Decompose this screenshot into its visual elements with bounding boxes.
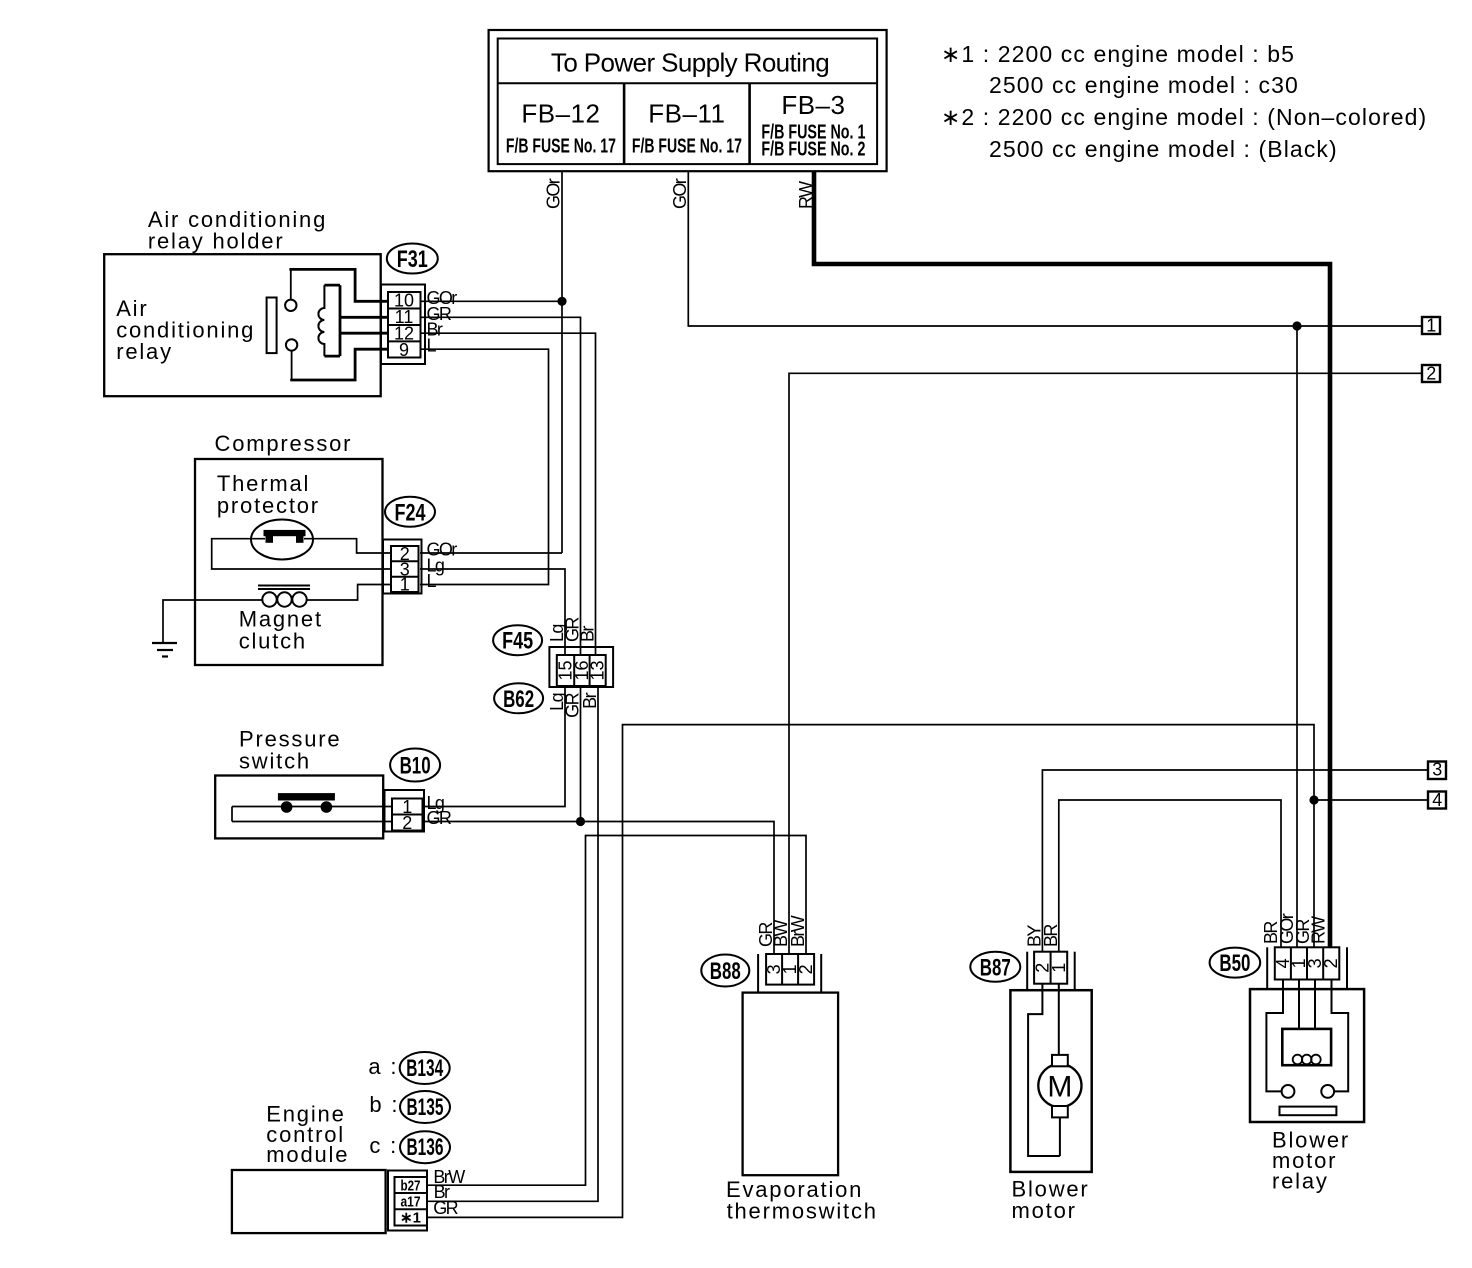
svg-text:2: 2 [402, 813, 412, 833]
power supply routing box [489, 30, 887, 171]
svg-text:b :: b : [369, 1092, 399, 1117]
svg-text:F/B FUSE No. 17: F/B FUSE No. 17 [506, 136, 616, 158]
wire B87 pin 2 to motor bottom terminal [1028, 984, 1060, 1156]
svg-text:3: 3 [1432, 760, 1442, 780]
thermal protector [251, 520, 313, 560]
magnet clutch coil [258, 586, 310, 607]
connector B88 [701, 954, 821, 993]
wire B87 pin 1 to motor top terminal [1058, 984, 1060, 1055]
wire GR: B10 pin 2 to B88 pin 3 [423, 822, 774, 955]
wire magnet clutch to pin 1 [307, 585, 392, 601]
connector row a: B134 [368, 1052, 449, 1084]
svg-text:B62: B62 [503, 686, 534, 713]
wire GR: ECM pin *1 up and right to B50 pin 3 [427, 725, 1314, 1218]
svg-text:F/B FUSE No. 17: F/B FUSE No. 17 [632, 136, 742, 158]
svg-text:F45: F45 [502, 628, 533, 655]
wire relay bottom contact to pin 9 [290, 349, 388, 380]
wire magnet clutch to ground [163, 600, 263, 642]
svg-text:F/B FUSE No. 2: F/B FUSE No. 2 [761, 139, 865, 161]
wire relay coil to pin 11 [340, 316, 388, 319]
svg-text:thermoswitch: thermoswitch [727, 1198, 878, 1223]
svg-text:Br: Br [580, 692, 600, 708]
motor M1 blower [1038, 1055, 1081, 1118]
svg-text:B136: B136 [407, 1134, 444, 1161]
svg-text:Compressor: Compressor [215, 431, 353, 456]
svg-text:switch: switch [239, 749, 311, 774]
svg-text:B87: B87 [980, 954, 1011, 981]
svg-text:GR: GR [427, 808, 452, 828]
svg-text:GOr: GOr [544, 178, 564, 209]
evaporation thermoswitch box [726, 993, 878, 1224]
svg-text:relay holder: relay holder [148, 229, 285, 254]
blower motor relay box [1250, 989, 1364, 1194]
relay contact points [1282, 1085, 1335, 1098]
svg-text:∗2 : 2200 cc engine model : (N: ∗2 : 2200 cc engine model : (Non–colored… [941, 104, 1427, 130]
svg-text:9: 9 [399, 340, 409, 360]
relay armature bar [1280, 1107, 1337, 1116]
svg-text:B135: B135 [407, 1094, 444, 1121]
wire thermal protector to pin 2 [304, 539, 391, 553]
node tag 3 [1428, 760, 1446, 780]
wire BrW: ECM pin b27 to B88 pin 2 [427, 836, 806, 1186]
wire pressure switch left link [231, 807, 233, 822]
ground [152, 643, 177, 657]
svg-text:a17: a17 [401, 1194, 421, 1211]
wire Br: ECM pin a17 to B62 pin 13 [427, 687, 598, 1201]
wire relay pin 3 to coil [1314, 980, 1316, 1029]
junction GR at pressure switch pin 2 wire [576, 817, 585, 826]
wire Lg: F24 pin 3 to F45 pin 15 [420, 569, 565, 655]
node tag 4 [1428, 790, 1446, 810]
svg-text:a :: a : [368, 1054, 398, 1079]
connector F31 [381, 244, 438, 365]
air conditioning relay holder box [104, 207, 381, 396]
svg-text:2: 2 [796, 964, 816, 974]
connector row b: B135 [369, 1091, 450, 1123]
wire GOr: branch down to B50 pin 1 [1296, 326, 1298, 947]
svg-text:c :: c : [369, 1133, 398, 1158]
connector F24 [383, 497, 435, 594]
node tag 1 [1422, 316, 1440, 336]
svg-text:FB–3: FB–3 [781, 90, 845, 120]
connector F45 [493, 625, 542, 655]
svg-text:GOr: GOr [670, 178, 690, 209]
svg-text:1: 1 [400, 575, 410, 595]
svg-text:To Power Supply Routing: To Power Supply Routing [551, 48, 829, 78]
wire GOr: FB-11 down and right to tag 1 [688, 171, 1422, 326]
junction GOr at F31 pin 10 wire [557, 297, 566, 306]
ECM connector body [388, 1171, 427, 1231]
svg-text:BrW: BrW [788, 915, 808, 947]
connector row c: B136 [369, 1131, 450, 1163]
relay coil K1 [1282, 1029, 1331, 1065]
svg-text:1: 1 [1049, 963, 1069, 973]
note *1 *2 engine models [941, 41, 1427, 162]
wire BR: B87 pin 1 to B50 pin 4 [1059, 800, 1281, 952]
svg-text:F31: F31 [397, 246, 428, 273]
svg-text:motor: motor [1012, 1198, 1077, 1223]
svg-text:4: 4 [1432, 790, 1442, 810]
wire L: F31 pin 9 to F24 pin 1 [418, 349, 549, 584]
wire relay pin 1 to coil [1298, 980, 1300, 1029]
engine control module box [232, 1102, 386, 1234]
connector B62 [494, 683, 543, 713]
svg-text:13: 13 [588, 660, 608, 680]
svg-text:∗1 : 2200 cc engine model : b5: ∗1 : 2200 cc engine model : b5 [941, 41, 1295, 67]
blower motor box [1010, 990, 1091, 1223]
wire relay pin 2 to right contact [1332, 980, 1349, 1092]
wire GOr: FB-12 down to F24 pin 2 [420, 171, 562, 553]
svg-text:2: 2 [1426, 364, 1436, 384]
svg-text:BR: BR [1041, 924, 1061, 947]
svg-text:FB–12: FB–12 [521, 99, 600, 129]
svg-text:Br: Br [578, 626, 598, 642]
svg-text:2500 cc engine model : (Black): 2500 cc engine model : (Black) [989, 136, 1338, 162]
svg-text:RW: RW [1309, 916, 1329, 944]
wire BY: B87 pin 2 to tag 3 [1042, 770, 1428, 952]
svg-text:protector: protector [217, 493, 320, 518]
svg-text:GR: GR [433, 1198, 458, 1218]
svg-text:B88: B88 [710, 958, 741, 985]
svg-text:relay: relay [1272, 1169, 1329, 1194]
junction GR at tag 4 branch [1309, 795, 1318, 804]
wire pressure switch to pin 2 [232, 821, 391, 823]
pressure switch box [215, 727, 383, 839]
node tag 2 [1422, 364, 1440, 384]
svg-text:2500 cc engine model : c30: 2500 cc engine model : c30 [989, 72, 1299, 98]
wire GOr: F31 pin 10 to GOr vertical [418, 300, 562, 302]
svg-text:b27: b27 [401, 1177, 421, 1194]
wire RW: FB-3 down and right to B50 pin 2 (thick) [814, 171, 1330, 947]
wire Lg: B62 pin 15 to B10 pin 1 [423, 687, 565, 807]
junction GOr at blower motor relay branch [1292, 321, 1301, 330]
svg-text:FB–11: FB–11 [648, 99, 725, 129]
wire pressure switch to pin 1 [232, 806, 391, 808]
wire GR: B62 pin 16 down to pressure switch junction [580, 687, 582, 822]
svg-text:B50: B50 [1219, 950, 1250, 977]
air conditioning relay coil [318, 285, 340, 356]
svg-text:2: 2 [1321, 958, 1341, 968]
svg-text:F24: F24 [395, 499, 426, 526]
svg-text:Magnet: Magnet [239, 606, 323, 631]
connector B87 [970, 952, 1074, 991]
pressure switch contact bridge [278, 793, 335, 813]
air conditioning relay contact points [285, 300, 297, 351]
wire BW: tag 2 to B88 pin 1 [789, 373, 1422, 954]
wire relay pin 4 to left contact [1266, 980, 1283, 1092]
wire thermal protector to pin 3 [212, 539, 391, 569]
wire Br: F31 pin 12 to F45 pin 13 [418, 333, 596, 655]
wire motor bottom terminal down [1059, 1117, 1061, 1156]
compressor box [195, 431, 383, 665]
svg-text:1: 1 [1426, 316, 1436, 336]
wire GR branch to tag 4 [1314, 799, 1428, 801]
wire GR: F31 pin 11 to F45 pin 16 [418, 317, 581, 655]
svg-text:B10: B10 [400, 753, 431, 780]
svg-text:B134: B134 [406, 1055, 443, 1082]
connector B10 [385, 749, 441, 832]
wire relay top contact to pin 10 [289, 269, 388, 301]
svg-text:relay: relay [116, 339, 173, 364]
air conditioning relay contact bar [267, 298, 277, 354]
svg-text:M: M [1047, 1070, 1072, 1103]
svg-text:clutch: clutch [239, 629, 307, 654]
svg-text:module: module [266, 1142, 349, 1167]
connector F45/B62 body [549, 647, 613, 687]
svg-text:∗1: ∗1 [400, 1210, 421, 1227]
connector B50 [1210, 947, 1347, 989]
wire relay coil to pin 12 [340, 332, 388, 335]
